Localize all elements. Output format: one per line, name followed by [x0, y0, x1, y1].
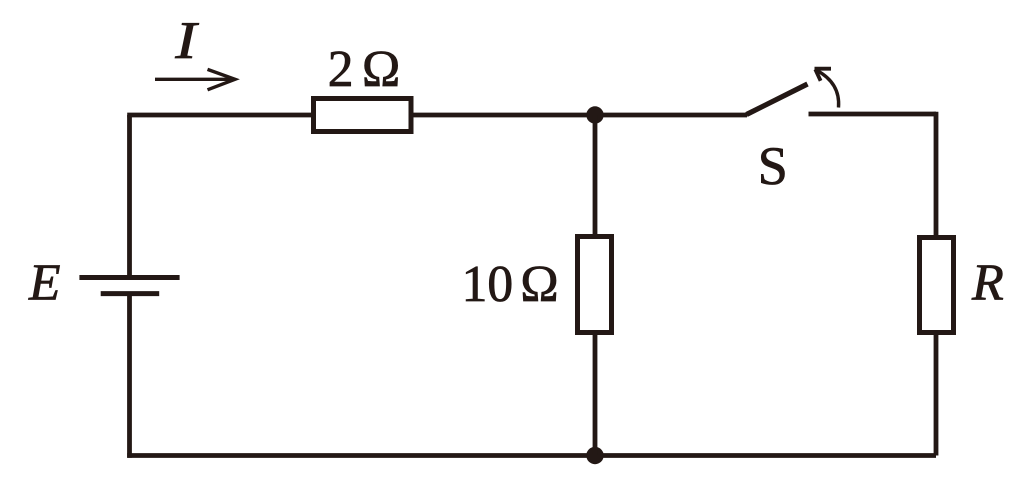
switch motion arc arrow — [817, 70, 839, 107]
switch S — [747, 69, 839, 115]
label: 2 Ω value — [328, 41, 400, 98]
node: bottom junction — [586, 447, 603, 464]
wire: bottom rail — [127, 453, 936, 458]
wire: right vertical upper (corner to R) — [934, 112, 939, 237]
svg-text:2: 2 — [328, 41, 354, 98]
wire: 10 ohm branch lower (resistor to bottom node) — [593, 333, 598, 456]
svg-text:10: 10 — [462, 256, 513, 313]
wire: top rail left segment (corner to 2 ohm resistor) — [127, 113, 313, 118]
svg-text:Ω: Ω — [520, 256, 558, 313]
battery long plate (+) — [79, 275, 179, 280]
svg-text:Ω: Ω — [362, 41, 400, 98]
resistor 2Ω — [314, 99, 412, 132]
resistor 10Ω — [578, 237, 612, 333]
wire: 10 ohm branch upper (top node to resistor) — [593, 115, 598, 236]
svg-text:S: S — [758, 136, 788, 196]
current arrow I — [155, 69, 235, 89]
svg-text:E: E — [28, 254, 60, 311]
resistor R — [920, 238, 954, 333]
wire: switch contact to top-right corner — [809, 112, 937, 117]
battery E — [79, 278, 179, 294]
svg-text:R: R — [971, 255, 1004, 312]
battery short plate (-) — [101, 291, 160, 296]
wire: right vertical lower (R to bottom rail) — [934, 333, 939, 456]
wire: left vertical upper (battery + terminal to top rail) — [127, 115, 132, 278]
svg-text:I: I — [174, 12, 199, 70]
node: top junction — [586, 106, 603, 123]
wire: left vertical lower (battery - terminal to bottom rail) — [127, 294, 132, 458]
switch blade — [747, 84, 808, 115]
label: 10 Ω value — [462, 256, 559, 313]
wire: top rail middle segment (2 ohm resistor to switch) — [414, 113, 748, 118]
